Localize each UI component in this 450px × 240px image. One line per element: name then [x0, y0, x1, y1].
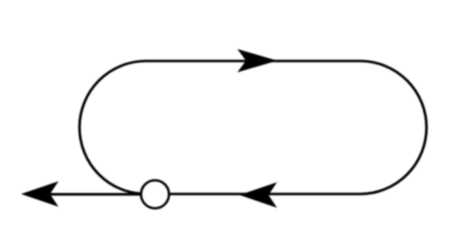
wire (tail line exiting left from node): [40, 193, 155, 196]
arrowhead on bottom wire (pointing left): [240, 182, 278, 208]
node (open circle junction): [141, 180, 169, 208]
arrowhead on tail wire (pointing left): [21, 181, 59, 207]
arrowhead on top wire (pointing right): [237, 49, 277, 72]
loop (stadium-shaped closed path): [80, 61, 427, 194]
